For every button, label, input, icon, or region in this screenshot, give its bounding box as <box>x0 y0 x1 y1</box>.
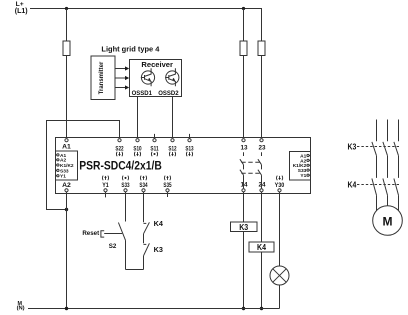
svg-text:Y30: Y30 <box>275 182 285 189</box>
light beam arrow 2 <box>115 77 125 79</box>
wire S33 to S2 <box>125 192 127 222</box>
pin S33 <box>56 169 57 171</box>
contactor coil K4 <box>249 242 274 252</box>
wire S22 loop to A2 <box>47 121 120 210</box>
terminal S13 stub <box>189 134 191 139</box>
junction A2 at N rail <box>65 307 68 310</box>
svg-text:A2: A2 <box>62 182 71 189</box>
wire 14 to K3 coil <box>243 192 245 222</box>
wire 24 to K4 coil <box>261 192 263 242</box>
wire OSSD2 to S12 <box>172 97 174 139</box>
wire L+ rail to 13 <box>243 9 245 139</box>
svg-text:Transmitter: Transmitter <box>99 61 105 94</box>
pin K1/K2 <box>56 164 57 166</box>
pin A2 <box>56 159 57 161</box>
terminal S35 <box>166 189 169 192</box>
fuse F3 <box>258 41 265 56</box>
svg-text:K4: K4 <box>154 221 163 228</box>
wire Y30 to lamp <box>279 192 281 266</box>
mechanical link dashes K3 <box>357 146 401 148</box>
fuse F1 <box>63 41 70 56</box>
svg-text:K1/K2: K1/K2 <box>60 163 74 169</box>
svg-text:K3: K3 <box>348 142 357 151</box>
svg-text:S12: S12 <box>168 146 177 153</box>
svg-text:Y1: Y1 <box>300 173 306 179</box>
OSSD2 phototransistor <box>165 68 179 86</box>
svg-text:S22: S22 <box>115 146 124 153</box>
light beam arrow 1 <box>115 68 125 70</box>
pin Y1 <box>56 175 57 177</box>
mechanical link dashes contacts <box>241 161 260 163</box>
wire lamp to N rail <box>279 285 281 309</box>
svg-text:OSSD2: OSSD2 <box>158 91 179 97</box>
terminal Y30 <box>278 189 281 192</box>
contactor coil K3 <box>231 222 258 232</box>
junction on L+ rail at 13 drop <box>242 7 245 10</box>
svg-text:A1: A1 <box>62 144 71 151</box>
svg-text:K3: K3 <box>154 247 163 254</box>
wire L+ rail to A1 <box>66 9 68 139</box>
terminal S12 <box>171 139 174 142</box>
mechanical link dashes K4 <box>357 184 401 186</box>
phase line 3 <box>398 120 400 142</box>
svg-text:23: 23 <box>259 144 266 151</box>
terminal S35 stub <box>167 192 169 197</box>
safety contact 23-24 <box>258 152 262 188</box>
svg-text:(L1): (L1) <box>15 8 28 15</box>
svg-text:S34: S34 <box>139 182 148 189</box>
terminal S10 <box>136 139 139 142</box>
aux contact K3 <box>144 243 150 269</box>
svg-text:PSR-SDC4/2x1/B: PSR-SDC4/2x1/B <box>79 159 162 173</box>
svg-text:(N): (N) <box>17 306 25 312</box>
svg-text:OSSD1: OSSD1 <box>132 91 153 97</box>
terminal S13 <box>188 139 191 142</box>
wire K3 coil to N rail <box>243 232 245 309</box>
svg-text:Reset: Reset <box>82 230 99 237</box>
svg-text:K3: K3 <box>239 222 248 232</box>
light beam arrow 3 <box>115 87 125 89</box>
svg-text:24: 24 <box>259 182 266 189</box>
svg-text:M: M <box>383 214 393 228</box>
svg-text:L+: L+ <box>16 1 24 8</box>
internal pin list left <box>56 151 78 180</box>
svg-text:S33: S33 <box>121 182 130 189</box>
svg-text:S10: S10 <box>133 146 142 153</box>
svg-text:Receiver: Receiver <box>141 62 173 69</box>
svg-text:Y1: Y1 <box>102 182 109 189</box>
OSSD1 phototransistor <box>141 68 155 86</box>
wire OSSD1 to S10 <box>137 97 139 139</box>
contactor contacts K4 three pole <box>372 179 399 212</box>
junction loop meets A2 wire <box>65 208 68 211</box>
neutral rail M (N) <box>28 308 280 310</box>
svg-text:S11: S11 <box>150 146 159 153</box>
svg-text:S33: S33 <box>60 168 69 174</box>
svg-text:S35: S35 <box>163 182 172 189</box>
terminal S33 <box>124 189 127 192</box>
terminal S11 <box>153 139 156 142</box>
terminal Y1 <box>104 189 107 192</box>
svg-text:Light grid type 4: Light grid type 4 <box>101 46 159 53</box>
svg-text:K4: K4 <box>348 180 357 189</box>
terminal S22 <box>118 139 121 142</box>
svg-text:S13: S13 <box>185 146 194 153</box>
safety contact 13-14 <box>240 152 244 188</box>
motor M <box>373 206 403 236</box>
svg-text:K4: K4 <box>257 242 266 252</box>
terminal 23 <box>260 139 263 142</box>
contactor contacts K3 three pole <box>372 142 399 178</box>
wire A2 to N rail <box>66 192 68 309</box>
terminal 13 <box>242 139 245 142</box>
wire L+ rail corner to 23 <box>261 9 263 139</box>
aux contact K4 <box>144 222 150 243</box>
terminal A1 <box>65 139 68 142</box>
terminal S34 <box>142 189 145 192</box>
indicator lamp <box>270 266 289 285</box>
fuse F2 <box>240 41 247 56</box>
relay U1 PSR-SDC4/2x1/B body <box>56 138 311 194</box>
svg-text:13: 13 <box>241 144 248 151</box>
phase line 2 <box>387 120 389 142</box>
svg-text:A2: A2 <box>60 158 66 164</box>
junction K3 at N rail <box>242 307 245 310</box>
receiver box <box>130 60 182 97</box>
pin A1 <box>56 154 57 156</box>
transmitter box <box>91 56 115 100</box>
terminal Y1 stub <box>105 192 107 198</box>
reset button S2 <box>101 223 126 270</box>
internal pin list right <box>290 152 311 180</box>
terminal S11 stub <box>154 134 156 139</box>
wire K4 coil to N rail <box>261 252 263 309</box>
terminal 14 <box>242 189 245 192</box>
wire S34 to K4 contact <box>143 192 145 222</box>
supply rail L+ (L1) <box>30 8 262 10</box>
terminal A2 <box>65 189 68 192</box>
terminal 24 <box>260 189 263 192</box>
svg-text:S2: S2 <box>109 243 117 250</box>
svg-text:14: 14 <box>241 182 248 189</box>
junction K4 at N rail <box>260 307 263 310</box>
wire reset loop bottom <box>126 269 144 271</box>
phase line 1 <box>376 120 378 142</box>
svg-text:Y1: Y1 <box>60 174 66 180</box>
junction on L+ rail at A1 drop <box>65 7 68 10</box>
